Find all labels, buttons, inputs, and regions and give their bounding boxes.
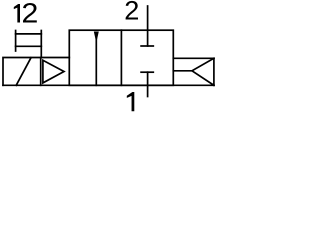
return triangle — [192, 58, 214, 85]
solenoid diagonal stroke — [16, 58, 31, 86]
valve body outline — [69, 30, 173, 85]
label 12 digit 2 — [23, 3, 37, 23]
pneumatic return box top edge — [173, 57, 214, 59]
solenoid Y1 box outline — [3, 58, 69, 86]
wire: bottom rail — [3, 84, 214, 86]
pilot duct box (port 12) left bar — [15, 31, 17, 52]
pilot amplifier triangle — [43, 60, 64, 83]
pilot duct box top edge — [16, 33, 42, 35]
flow arrow stem — [95, 38, 97, 85]
pilot duct box bottom edge — [16, 45, 42, 47]
port 2 stem wire — [147, 6, 149, 46]
pilot duct box right bar — [40, 31, 42, 58]
valve position divider — [120, 30, 122, 85]
port 1 blocked T-bar — [141, 71, 153, 73]
flow arrow head — [94, 32, 99, 43]
port 2 blocked T-bar — [141, 45, 153, 47]
label 12 digit 1 — [14, 4, 20, 23]
label 2 — [126, 1, 138, 20]
port 1 stem wire — [147, 72, 149, 96]
solenoid/pilot divider — [40, 58, 42, 86]
label 1 — [127, 92, 135, 111]
pneumatic return box right edge — [213, 58, 215, 85]
return pilot line — [173, 70, 192, 72]
